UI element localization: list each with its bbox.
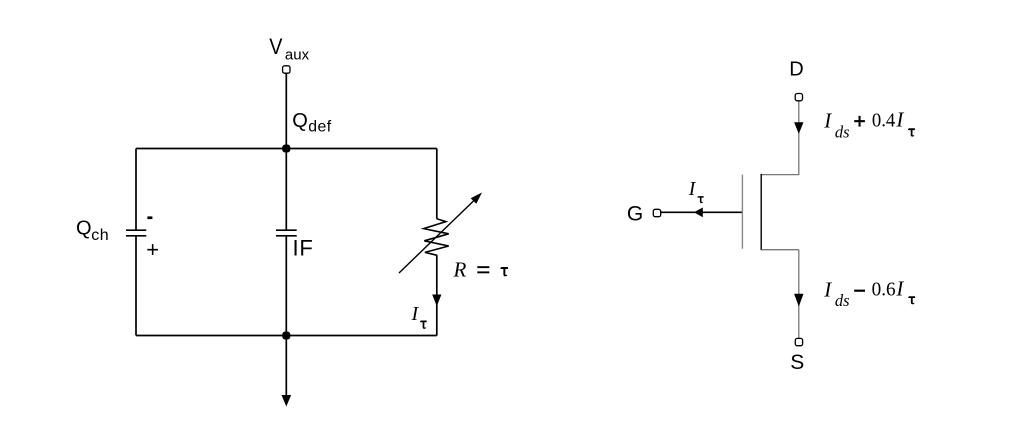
svg-text:I: I xyxy=(823,109,832,133)
svg-text:I: I xyxy=(823,277,832,301)
svg-text:Q: Q xyxy=(292,110,308,132)
svg-text:0.4: 0.4 xyxy=(872,110,895,132)
svg-text:ds: ds xyxy=(835,291,850,310)
svg-text:+: + xyxy=(146,237,159,262)
svg-text:Q: Q xyxy=(76,218,92,240)
svg-text:S: S xyxy=(790,351,804,374)
svg-text:I: I xyxy=(895,108,904,132)
svg-text:I: I xyxy=(411,303,420,325)
svg-text:aux: aux xyxy=(285,47,310,64)
svg-text:D: D xyxy=(789,59,803,81)
svg-text:I: I xyxy=(895,277,904,301)
svg-text:G: G xyxy=(627,203,643,226)
svg-text:0.6: 0.6 xyxy=(872,279,896,301)
svg-text:ch: ch xyxy=(91,227,109,244)
svg-text:R: R xyxy=(453,258,467,282)
svg-text:def: def xyxy=(308,119,332,136)
svg-text:ds: ds xyxy=(835,122,850,141)
svg-text:V: V xyxy=(269,34,282,59)
svg-text:IF: IF xyxy=(293,235,314,260)
